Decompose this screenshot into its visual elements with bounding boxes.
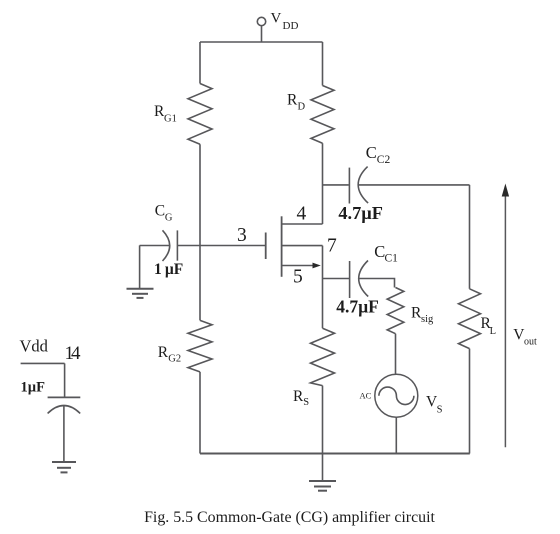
svg-text:G2: G2	[168, 354, 181, 365]
svg-text:C1: C1	[385, 252, 399, 264]
svg-text:R: R	[158, 344, 169, 361]
svg-text:4: 4	[71, 343, 81, 364]
svg-text:out: out	[524, 337, 537, 348]
svg-text:Vdd: Vdd	[20, 337, 49, 356]
svg-text:L: L	[490, 326, 496, 337]
svg-text:S: S	[437, 405, 443, 416]
svg-text:1µF: 1µF	[21, 380, 46, 396]
svg-text:G: G	[165, 213, 173, 224]
svg-text:1 µF: 1 µF	[154, 261, 183, 278]
svg-text:3: 3	[237, 225, 247, 246]
svg-text:Fig. 5.5 Common-Gate (CG) ampl: Fig. 5.5 Common-Gate (CG) amplifier circ…	[144, 509, 435, 526]
svg-text:4: 4	[297, 204, 307, 225]
svg-text:5: 5	[293, 267, 303, 288]
svg-text:S: S	[303, 397, 309, 408]
svg-text:C: C	[366, 143, 377, 162]
svg-text:sig: sig	[421, 314, 434, 325]
svg-text:DD: DD	[283, 20, 299, 32]
svg-text:4.7µF: 4.7µF	[338, 203, 383, 223]
svg-text:4.7µF: 4.7µF	[336, 297, 379, 317]
svg-text:C2: C2	[377, 154, 391, 166]
svg-text:R: R	[287, 92, 298, 109]
svg-text:C: C	[155, 203, 165, 220]
svg-text:V: V	[271, 11, 282, 27]
svg-text:G1: G1	[164, 114, 177, 125]
svg-text:D: D	[298, 102, 306, 113]
svg-text:7: 7	[327, 236, 337, 257]
svg-text:AC: AC	[360, 391, 372, 401]
